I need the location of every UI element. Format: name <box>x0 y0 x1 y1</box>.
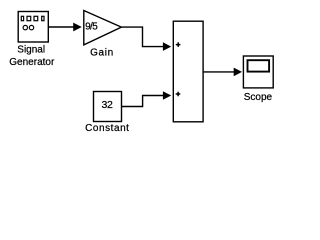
svg-text:Constant: Constant <box>85 123 129 134</box>
svg-text:Gain: Gain <box>90 48 114 59</box>
wire constant to sum bottom input <box>122 91 172 106</box>
signal generator icon square-wave pulses <box>21 16 44 20</box>
sum plus sign top input <box>176 42 181 47</box>
svg-text:32: 32 <box>101 99 113 111</box>
gain block <box>84 11 122 45</box>
wire sum to scope <box>203 68 242 77</box>
sum plus sign bottom input <box>176 92 181 97</box>
sum block <box>173 21 203 122</box>
scope screen <box>248 60 270 71</box>
scope block <box>243 56 273 88</box>
svg-text:Generator: Generator <box>9 57 55 68</box>
svg-text:9/5: 9/5 <box>85 21 98 32</box>
signal generator block <box>18 12 48 43</box>
signal generator icon sine-wave circles <box>23 25 34 29</box>
wire signal generator to gain <box>48 23 82 32</box>
svg-text:Signal: Signal <box>17 45 45 56</box>
wire gain to sum top input <box>121 27 171 51</box>
svg-text:Scope: Scope <box>244 92 273 103</box>
constant block <box>94 92 122 122</box>
label Signal Generator <box>9 45 55 68</box>
